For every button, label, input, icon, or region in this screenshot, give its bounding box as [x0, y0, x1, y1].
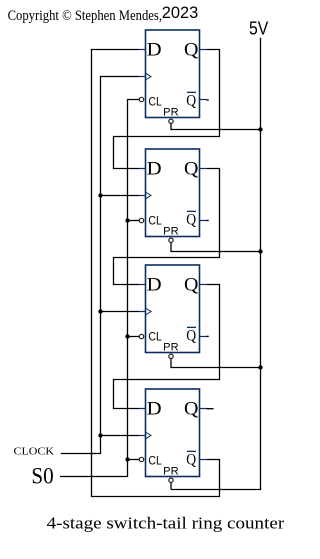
- U1 Q pin stub: [200, 49, 208, 51]
- wire Q U1 to D U2: [114, 50, 220, 169]
- svg-text:Q: Q: [184, 158, 199, 179]
- wire S0 clear bus: [60, 100, 139, 477]
- U3 clock edge triangle: [146, 308, 152, 315]
- svg-text:2023: 2023: [162, 4, 199, 22]
- junction clock bus / U3 CLK: [98, 309, 102, 313]
- 5V rail wire: [171, 38, 261, 490]
- U2 CL bubble: [139, 218, 143, 222]
- junction 5V rail / U2 PR: [258, 249, 262, 253]
- U2 PR bubble: [169, 238, 173, 242]
- svg-text:D: D: [147, 274, 162, 295]
- wire Q U2 to D U3: [114, 169, 220, 285]
- U4 Q open wire end: [207, 408, 214, 410]
- U3 CLK pin stub: [139, 311, 146, 313]
- wire PR U4 to 5V rail: [170, 483, 172, 490]
- U1 PR bubble: [169, 119, 173, 123]
- svg-text:5V: 5V: [249, 19, 268, 39]
- D flip-flop U2 body: [146, 149, 200, 237]
- svg-text:CL: CL: [148, 330, 162, 344]
- svg-text:Q: Q: [186, 451, 196, 468]
- U4 clock edge triangle: [146, 432, 152, 439]
- wire PR U3 to 5V rail: [171, 359, 261, 368]
- svg-text:CL: CL: [148, 95, 162, 109]
- U4 D pin stub: [139, 408, 146, 410]
- junction 5V rail / U1 PR: [258, 127, 262, 131]
- svg-text:PR: PR: [163, 226, 178, 238]
- U3 PR bubble: [169, 354, 173, 358]
- U3 Q-bar open wire end: [207, 335, 209, 337]
- D flip-flop U1 body: [146, 30, 200, 118]
- svg-text:Q: Q: [184, 398, 199, 419]
- U2 CLK pin stub: [139, 195, 146, 197]
- junction clear bus / U3 CL: [125, 334, 129, 338]
- svg-text:CL: CL: [148, 454, 162, 468]
- wire Q-bar U4 feedback to D U1: [92, 50, 220, 497]
- U4 CL bubble: [139, 457, 143, 461]
- U4 Q pin stub: [200, 408, 208, 410]
- U3 Q pin stub: [200, 284, 208, 286]
- svg-text:D: D: [147, 398, 162, 419]
- junction clock bus / U2 CLK: [98, 193, 102, 197]
- svg-text:4-stage switch-tail ring count: 4-stage switch-tail ring counter: [47, 514, 285, 533]
- svg-text:Q: Q: [186, 327, 196, 344]
- U2 Q-bar open wire end: [207, 220, 209, 222]
- U3 Q-bar pin stub: [200, 336, 208, 338]
- svg-text:Q: Q: [186, 92, 196, 109]
- junction clear bus / U4 CL: [125, 457, 129, 461]
- U1 Q-bar pin stub: [200, 99, 208, 101]
- wire clock branch to U2: [101, 195, 140, 197]
- U3 CL bubble: [139, 334, 143, 338]
- svg-text:Q: Q: [184, 39, 199, 60]
- U4 Q-bar pin stub: [200, 459, 208, 461]
- wire clear branch to U4: [128, 459, 140, 461]
- svg-text:D: D: [147, 158, 162, 179]
- D flip-flop U3 body: [146, 265, 200, 353]
- D flip-flop U4 body: [146, 389, 200, 477]
- wire PR U1 to 5V rail: [171, 124, 261, 130]
- svg-text:PR: PR: [163, 107, 178, 119]
- svg-text:D: D: [147, 39, 162, 60]
- U1 clock edge triangle: [146, 73, 152, 80]
- U1 D pin stub: [139, 49, 146, 51]
- svg-text:Q: Q: [186, 211, 196, 228]
- svg-text:CLOCK: CLOCK: [14, 447, 55, 458]
- wire clock branch to U4: [101, 435, 140, 437]
- wire clear branch to U2: [128, 220, 140, 222]
- svg-text:CL: CL: [148, 214, 162, 228]
- U1 CLK pin stub: [139, 76, 146, 78]
- svg-text:Copyright © Stephen Mendes,: Copyright © Stephen Mendes,: [8, 8, 162, 24]
- junction clock bus / U4 CLK: [98, 433, 102, 437]
- junction clear bus / U2 CL: [125, 218, 129, 222]
- svg-text:Q: Q: [184, 274, 199, 295]
- U2 Q pin stub: [200, 168, 208, 170]
- U4 CLK pin stub: [139, 435, 146, 437]
- wire Q U3 to D U4: [114, 285, 220, 409]
- svg-text:S0: S0: [31, 464, 53, 489]
- U3 D pin stub: [139, 284, 146, 286]
- junction 5V rail / U3 PR: [258, 365, 262, 369]
- U1 Q-bar open wire end: [207, 99, 209, 101]
- U2 Q-bar pin stub: [200, 220, 208, 222]
- U4 PR bubble: [169, 478, 173, 482]
- svg-text:PR: PR: [163, 342, 178, 354]
- wire CLOCK bus: [61, 77, 139, 454]
- svg-text:PR: PR: [163, 466, 178, 478]
- wire PR U2 to 5V rail: [171, 243, 261, 252]
- U2 clock edge triangle: [146, 192, 152, 199]
- U1 CL bubble: [139, 97, 143, 101]
- wire clock branch to U3: [101, 311, 140, 313]
- wire clear branch to U3: [128, 336, 140, 338]
- U2 D pin stub: [139, 168, 146, 170]
